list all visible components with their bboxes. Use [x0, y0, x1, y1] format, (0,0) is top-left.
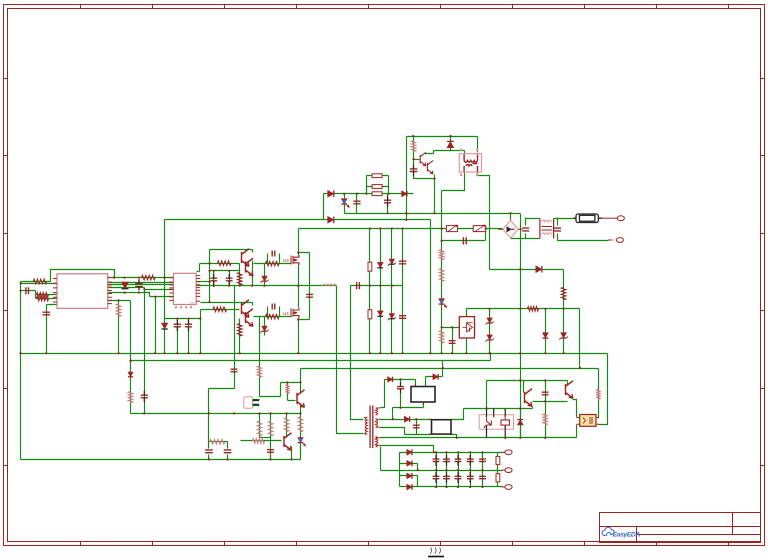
label T2 marks: [460, 149, 478, 177]
wire bus drop x200.4: [200, 310, 202, 354]
wire cc sense x234: [234, 286, 236, 389]
LED LED1: [341, 199, 347, 204]
capacitor C4: [210, 278, 217, 281]
IC U2 driver: [173, 273, 196, 304]
wire osc resistor branch x413: [414, 137, 435, 179]
resistor R22: [285, 385, 290, 394]
diode D14: [433, 374, 438, 380]
wire primary top feed: [351, 286, 364, 420]
junction dots output: [417, 451, 484, 488]
capacitor C9: [185, 324, 192, 327]
fold mark below frame: [428, 548, 444, 557]
resistor R29: [210, 439, 225, 444]
resistor R33: [496, 474, 500, 482]
wire rail y368: [301, 368, 599, 370]
wire emitter res drop 2: [239, 319, 241, 354]
wire gate zener drop 2: [264, 317, 266, 336]
resistor R7: [213, 307, 227, 312]
diode D4: [328, 216, 334, 223]
resistor R16: [439, 250, 444, 260]
wire U1 jog y292.6: [109, 293, 174, 297]
wire zener drop x563.6: [563, 309, 565, 354]
thermistor RT2: [473, 226, 486, 232]
resistor R32: [496, 456, 500, 464]
resistor R21: [368, 310, 372, 319]
resistor R34: [257, 366, 262, 377]
capacitor C28 filter: [443, 459, 450, 461]
wire led drop x344: [344, 194, 346, 214]
wire cap bottoms to rail: [209, 455, 228, 460]
bridge rectifier BD1: [498, 221, 522, 239]
transistor Q7: [525, 389, 533, 407]
resistor R35: [368, 262, 372, 271]
pin P1 line: [614, 216, 625, 221]
wire bridge bottom link: [511, 238, 540, 240]
zener Z4: [389, 314, 394, 319]
optocoupler U5: [577, 415, 599, 427]
wire right drop x579.9: [579, 309, 581, 369]
wire TL431 bottom pin: [466, 339, 468, 354]
junction dots U1 area: [20, 277, 166, 302]
wire T2 secondary to HV node: [478, 172, 490, 270]
resistor R12: [372, 174, 382, 178]
transformer T1: [364, 406, 381, 449]
junction dots snubber: [297, 228, 487, 321]
wire res drop x259.5: [259, 414, 261, 438]
resistor R4: [142, 275, 156, 280]
wire RC link y441.8: [209, 441, 228, 443]
wire net y219.8: [165, 219, 431, 221]
capacitor C37: [141, 395, 148, 398]
diode D10: [543, 333, 549, 338]
wire net y213: [345, 213, 521, 215]
resistor R24: [596, 390, 601, 400]
resistor R26: [298, 417, 303, 432]
wire U1-U2 link y277.6: [109, 277, 174, 279]
wire cap drop x387.6: [387, 194, 389, 214]
zener Z7: [561, 333, 567, 338]
wire resistor drop x118.6: [118, 301, 120, 354]
pin P4 output mid: [502, 468, 513, 473]
wire filter column x482.5: [482, 453, 484, 487]
resistor R5: [116, 304, 121, 317]
resistor R18: [439, 331, 444, 344]
wire gate zener drop 1: [264, 264, 266, 286]
wire relay coil rail y408.5: [464, 407, 533, 409]
transistor Q10 driver lo: [242, 300, 250, 318]
wire secondary row3: [381, 428, 432, 435]
wire HV column x369.9: [369, 229, 371, 354]
capacitor C34 filter: [467, 476, 474, 478]
resistor R15: [411, 141, 416, 152]
zener Z6: [487, 335, 492, 340]
svg-text:U4: U4: [283, 311, 289, 316]
diode D19: [377, 262, 383, 267]
IC U6 TL431 shunt reference: [459, 317, 474, 338]
diode D8: [161, 323, 167, 329]
junction dots lower left: [143, 381, 301, 460]
capacitor C12: [410, 169, 418, 172]
junction dots relay area: [392, 367, 581, 439]
resistor R2: [37, 292, 49, 297]
resistor R25: [284, 418, 289, 432]
wire stack feed y294.8: [36, 294, 57, 296]
wire osc vertical x430.3: [430, 220, 432, 354]
resistor R23: [543, 414, 548, 425]
wire gate cap stubs 2: [268, 307, 280, 317]
capacitor C30 filter: [467, 459, 474, 461]
wire cap drop x545.1: [545, 381, 547, 402]
wire aux diode link y376.8: [426, 361, 443, 387]
transistor Q8 driver hi: [242, 249, 250, 267]
wire driver base rail y263.2: [200, 263, 240, 265]
wire U1 left y283.2: [21, 283, 57, 285]
capacitor C25: [224, 450, 232, 453]
inductor L1: [323, 284, 337, 286]
wire res drop x270.7: [270, 414, 272, 438]
zener Z1: [262, 276, 267, 281]
svg-text:EasyEDA: EasyEDA: [613, 532, 641, 539]
wire output mid rail y470.1: [381, 470, 503, 472]
diode D6: [536, 266, 542, 273]
wire feedback rail y309: [467, 308, 580, 310]
LED LED2: [439, 299, 445, 304]
wire aux rail y413.4: [131, 413, 301, 415]
svg-text:U3: U3: [283, 258, 289, 263]
capacitor C33 filter: [455, 476, 462, 478]
wire secondary row2: [381, 419, 432, 421]
wire aux cap column: [400, 380, 402, 408]
wire lower base rail y309.3: [201, 309, 240, 311]
resistor R13: [372, 185, 382, 189]
wire left column x209: [208, 389, 210, 449]
diode D13: [388, 377, 393, 382]
wire TL431 top pin: [466, 309, 468, 317]
wire Q5 base branch: [288, 383, 296, 401]
wire res bottoms y437.9: [260, 437, 271, 439]
wire aux diode rail y379.4: [385, 380, 416, 387]
wire cap branch x452: [452, 328, 454, 354]
capacitor C8: [174, 324, 181, 327]
capacitor C10: [353, 201, 360, 204]
capacitor C13: [357, 282, 360, 289]
wire fb vertical x164.6: [164, 220, 166, 354]
wire choke to fuse y218: [554, 218, 577, 239]
wire cap column x227.5: [227, 442, 229, 449]
resistor R17: [439, 268, 444, 281]
capacitor C19: [449, 341, 456, 344]
wire osc collector link: [425, 151, 434, 154]
wire cap drop x213.8: [213, 271, 215, 286]
wire snubber y285.7 right: [351, 285, 403, 287]
wire Q7 base drop: [523, 381, 525, 393]
capacitor C29 filter: [455, 459, 462, 461]
capacitor C35: [479, 459, 486, 461]
diode D12: [404, 416, 409, 422]
wire cap drop x270.5: [270, 438, 272, 460]
transistor Q3: [420, 152, 426, 165]
wire filter column x470.2: [470, 453, 472, 487]
wire osc base link: [414, 159, 420, 161]
wire Q6 emitter to opto: [573, 400, 577, 418]
diode D16: [407, 460, 412, 466]
wire box2 to relay: [451, 409, 464, 420]
resistor R1: [33, 279, 47, 284]
wire sense vertical x130.5: [130, 301, 132, 414]
wire aux bottom rail y407.8: [393, 402, 424, 408]
wire zener stack x489.6: [489, 309, 491, 354]
wire filter column x446.5: [446, 453, 448, 487]
capacitor C11: [384, 200, 391, 203]
wire cap bank bottom rail y487: [400, 486, 503, 488]
wire snub link y396.6: [260, 383, 281, 397]
relay K1: [479, 409, 513, 438]
wire relay flyback x521: [520, 409, 522, 438]
wire TL431 ref link y327: [442, 327, 460, 329]
wire osc emitter drop x434.5: [434, 175, 436, 214]
wire U1 pin y300.4: [109, 300, 131, 302]
wire MOSFET Q2 source: [298, 318, 300, 354]
diode D5: [447, 142, 454, 148]
wire HV column x391.8: [391, 229, 393, 354]
transistor Q5b: [284, 433, 292, 451]
junction dots fb: [129, 212, 564, 362]
wire U2 link y289.4: [145, 289, 174, 291]
capacitor C22: [397, 387, 404, 389]
wire MOSFET Q1 source: [298, 265, 300, 286]
wire secondary GND rail y437.8: [381, 437, 577, 439]
capacitor C23: [231, 369, 238, 372]
svg-text:J3: J3: [189, 301, 194, 306]
transistor Q5: [297, 390, 305, 408]
wire U1-U2 link y282.1: [109, 282, 174, 284]
capacitor C3: [43, 312, 51, 315]
diode D15: [407, 449, 412, 455]
wire base wire y441: [241, 440, 282, 442]
wire filter column x458: [458, 453, 460, 487]
transformer T3 standby: [411, 387, 435, 403]
wire T2 left pins: [442, 151, 465, 191]
pin P5 output -: [502, 485, 513, 490]
wire corner x323.7: [323, 194, 325, 220]
wire top oscillator rail: [407, 136, 478, 138]
transistor Q4: [427, 161, 433, 174]
transistor Q6: [566, 381, 574, 399]
wire cap bank top rail y452.3: [400, 452, 503, 454]
diode D3: [402, 191, 407, 197]
capacitor C1: [26, 287, 29, 294]
wire MOSFET drain x298: [298, 229, 300, 256]
capacitor C2: [135, 283, 143, 286]
zener Z5: [487, 318, 492, 323]
wire HV column x380.3: [380, 229, 382, 354]
module U7 black box: [432, 420, 452, 434]
resistor R31: [128, 392, 133, 403]
wire U1 pin1 loop: [21, 270, 115, 282]
wire driver node y270.8: [210, 264, 240, 271]
MOSFET Q1: [291, 255, 299, 265]
wire rectifier stair left: [399, 453, 401, 487]
wire secondary row5: [381, 446, 434, 453]
wire driver top rail y249.4: [210, 250, 253, 253]
wire U1 bottom cap branch: [47, 305, 57, 354]
wire Q5 collector x300.5: [300, 369, 302, 394]
wire fb rail y318.6: [165, 318, 201, 320]
wire x393 drop: [392, 408, 394, 420]
wire cap link y218: [526, 218, 540, 239]
capacitor C7: [272, 304, 275, 310]
wire res drop x286.6: [286, 414, 288, 438]
resistor R6: [218, 261, 232, 266]
resistor R3: [37, 296, 49, 301]
wire resistor drop x545.1: [545, 402, 547, 438]
junction dots osc: [343, 135, 452, 221]
wire secondary row1: [381, 380, 385, 408]
wire led column x300.5: [300, 414, 302, 460]
MOSFET Q2: [291, 308, 299, 318]
wire stack feed y298.6: [36, 298, 57, 300]
wire gate drive 1 y263.6: [254, 263, 292, 265]
wire Q5 emitter: [300, 405, 302, 414]
wire lower top rail y302: [201, 303, 253, 306]
resistor R19: [561, 287, 566, 300]
wire feedback drop x259.3: [259, 317, 261, 397]
LED LED3: [298, 438, 303, 443]
wire opto U4 out: [253, 400, 260, 406]
junction dots driver: [143, 262, 299, 303]
wire jog y388.1: [209, 388, 235, 390]
common-mode choke L2: [540, 218, 554, 238]
capacitor C20: [542, 392, 549, 395]
capacitor C5: [226, 278, 233, 281]
wire long vertical x144.3: [144, 288, 146, 414]
optocoupler U4: [244, 397, 259, 409]
resistor R8: [266, 261, 280, 266]
wire diode row y193.7: [324, 193, 414, 195]
wire AC neutral y240: [558, 239, 609, 241]
pin P3 output +: [502, 450, 513, 455]
diode D7: [377, 311, 383, 316]
wire base drive vertical x441: [441, 191, 443, 354]
wire oscillator left vertical: [406, 137, 408, 220]
capacitor C38: [306, 294, 313, 297]
wire switch node left y285.7: [197, 285, 337, 287]
wire driver bias x209.5: [209, 250, 211, 303]
wire U1-U2 link y284.9: [109, 284, 174, 286]
resistor R28: [268, 421, 273, 436]
resistor R9: [266, 314, 280, 319]
capacitor C6: [272, 251, 275, 257]
wire left GND rail: [21, 282, 301, 460]
wire bus drop x155: [155, 297, 157, 354]
diode D17: [407, 473, 412, 479]
thermistor RT1: [446, 226, 457, 232]
wire fuse to pin L: [602, 217, 614, 219]
capacitor C32 filter: [443, 476, 450, 478]
title block: [600, 513, 761, 543]
wire bridge top link: [510, 214, 512, 221]
wire GND bus y353: [21, 353, 608, 355]
wire Q5b emitter: [291, 447, 293, 460]
wire cap feed y290.8: [21, 291, 36, 299]
junction dots GND bus: [20, 352, 565, 354]
wire oscillator right vertical: [477, 137, 479, 153]
IC U1 controller: [57, 274, 108, 309]
wire rail corner up x300.7: [300, 445, 302, 460]
EasyEDA logo: [602, 527, 640, 538]
resistor R14: [372, 192, 382, 196]
resistor R30: [253, 439, 265, 444]
diode D18: [407, 484, 412, 490]
wire osc diode drop x450: [450, 137, 452, 151]
wire filter column x436: [436, 453, 438, 487]
capacitor C36: [479, 476, 486, 478]
diode D1: [121, 282, 128, 288]
wire res drop x239.7: [239, 271, 241, 286]
wire rail y360.9: [131, 354, 491, 361]
wire Q6 collector drop: [567, 381, 569, 385]
transformer T2: [459, 154, 481, 172]
wire row2 cap drop: [416, 420, 418, 435]
wire opto cathode drop: [576, 425, 578, 438]
wire U1-U2 link y287.1: [109, 287, 145, 289]
capacitor C21: [413, 425, 420, 428]
zener Z3: [389, 259, 394, 264]
wire drop x607.3 to opto: [599, 354, 608, 425]
wire X-cap link y240.9: [442, 229, 486, 241]
wire rectifier stair row3: [400, 476, 418, 487]
resistor R11: [237, 324, 242, 337]
wire long vertical x520: [520, 214, 522, 438]
wire diode drop x545.4: [545, 309, 547, 354]
wire snubber cap branch: [299, 253, 310, 320]
wire gate drive 2 y316.6: [254, 316, 292, 318]
wire HV rail y269: [490, 269, 564, 271]
wire cap drop x177.3: [177, 319, 179, 354]
capacitor C31 filter: [433, 476, 440, 478]
wire mains DC rail y228.6: [299, 228, 503, 230]
wire resistor drop x563: [563, 270, 565, 309]
capacitor C15: [399, 316, 406, 319]
capacitor C26: [267, 450, 274, 453]
transistor Q9 driver hi: [246, 258, 254, 276]
capacitor C27 filter: [433, 459, 440, 461]
diode D9: [128, 372, 133, 377]
wire stack loop: [367, 176, 389, 194]
wire U2 pin y281.8: [197, 281, 210, 283]
wire primary bottom feed: [337, 286, 364, 434]
wire transformer bottom to mid rail: [380, 447, 382, 471]
wire relay feed rail y380.5: [487, 380, 568, 382]
resistor R10: [237, 273, 242, 286]
capacitor C16: [463, 237, 466, 244]
zener Z2: [262, 326, 267, 331]
wire cap drop x188.5: [188, 319, 190, 354]
wire cc link y382.3: [281, 382, 301, 384]
wire osc collector link y150: [434, 150, 465, 152]
diode D2: [328, 190, 334, 197]
wire cap drop x357: [356, 194, 358, 214]
wire U2 top jog: [197, 264, 200, 272]
fuse F1: [574, 214, 602, 223]
capacitor C17: [522, 228, 529, 231]
capacitor C14: [399, 261, 406, 264]
wire emitter column x252: [252, 261, 254, 286]
capacitor C24: [205, 450, 213, 453]
resistor R20: [528, 306, 539, 311]
transistor Q11 driver lo: [246, 309, 254, 327]
wire Q7 collector link y401.3: [533, 401, 568, 403]
